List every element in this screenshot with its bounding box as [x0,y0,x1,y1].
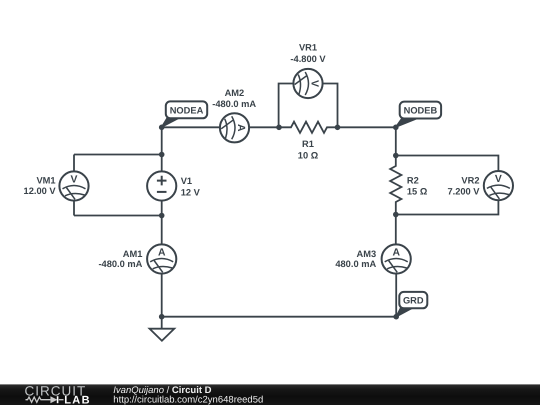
svg-text:-4.800 V: -4.800 V [290,54,326,64]
ammeter AM3 [382,244,411,273]
wire [396,156,499,172]
svg-text:15 Ω: 15 Ω [407,186,428,196]
footer bar [0,384,540,405]
node [393,153,399,159]
node B [393,125,399,131]
ammeter AM2 [220,113,249,142]
svg-text:VM1: VM1 [36,176,55,186]
svg-text:7.200 V: 7.200 V [447,186,480,196]
resistor R2 [390,156,401,215]
wire [162,126,220,128]
svg-text:A: A [392,248,400,259]
svg-text:R2: R2 [407,176,419,186]
wire [73,200,75,215]
logo resistor-diode icon [26,396,64,403]
wire [395,215,397,245]
svg-text:AM2: AM2 [225,88,245,98]
svg-text:12 V: 12 V [181,187,201,197]
wire [74,215,162,217]
svg-text:V: V [71,175,78,186]
svg-text:A: A [235,124,246,132]
wire [395,127,397,155]
voltmeter VR1 [293,69,322,98]
node flag GRD [396,292,427,317]
wire [395,273,397,316]
node [159,213,165,219]
node A [159,125,165,131]
wire [161,200,163,244]
svg-text:http://circuitlab.com/c2yn648r: http://circuitlab.com/c2yn648reed5d [113,394,263,405]
wire [249,126,279,128]
wire [322,84,337,128]
svg-text:R1: R1 [302,139,314,149]
svg-text:VR1: VR1 [299,43,317,53]
node [335,125,341,131]
wire [162,316,397,318]
svg-text:12.00 V: 12.00 V [24,186,57,196]
svg-text:AM3: AM3 [357,249,377,259]
wire [161,273,163,316]
svg-text:V1: V1 [181,176,192,186]
svg-text:AM1: AM1 [123,249,143,259]
wire [74,154,162,156]
svg-text:10 Ω: 10 Ω [298,150,319,160]
svg-text:V: V [495,174,502,185]
svg-text:VR2: VR2 [461,176,479,186]
voltmeter VR2 [484,171,513,200]
wire [396,200,499,214]
ammeter AM1 [147,244,176,273]
svg-text:480.0 mA: 480.0 mA [335,259,376,269]
node flag NODEA [162,101,208,127]
node [276,125,282,131]
svg-text:NODEA: NODEA [170,105,204,115]
node [159,314,165,320]
svg-text:A: A [158,248,166,259]
node flag NODEB [396,102,441,127]
wire [338,126,396,128]
wire [161,127,163,171]
wire [279,84,294,128]
svg-text:GRD: GRD [403,296,424,306]
voltage source V1 [147,171,176,200]
node [393,212,399,218]
voltmeter VM1 [59,171,88,200]
wire [73,155,75,172]
svg-text:-480.0 mA: -480.0 mA [212,99,256,109]
ground [150,317,175,341]
svg-text:V: V [308,80,319,87]
resistor R1 [279,122,338,133]
node GRD [393,314,399,320]
svg-text:LAB: LAB [64,394,91,405]
svg-text:NODEB: NODEB [404,106,438,116]
node [159,152,165,158]
svg-text:-480.0 mA: -480.0 mA [98,259,142,269]
